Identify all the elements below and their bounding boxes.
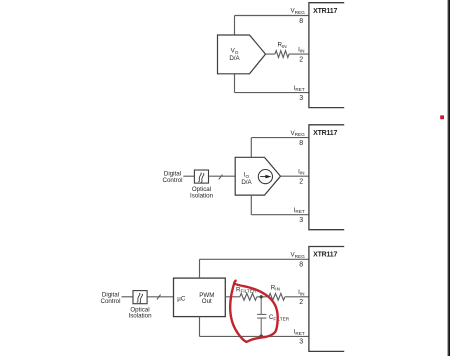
svg-text:VREG: VREG: [291, 252, 306, 259]
XTR117 box U4: [309, 125, 344, 230]
svg-text:Isolation: Isolation: [128, 313, 152, 320]
svg-text:8: 8: [299, 262, 303, 269]
svg-text:2: 2: [299, 179, 303, 186]
svg-text:IIN: IIN: [298, 168, 304, 175]
wire PWM output net: [225, 296, 309, 298]
wire IRET net (DAC bottom to pin 3): [235, 74, 309, 93]
svg-text:Control: Control: [101, 298, 121, 305]
svg-text:IRET: IRET: [294, 207, 305, 214]
svg-text:VREG: VREG: [291, 130, 306, 137]
svg-text:RIN: RIN: [271, 284, 280, 291]
opto-isolator box: [133, 291, 147, 304]
current source circle: [258, 170, 272, 184]
svg-text:Out: Out: [202, 298, 212, 305]
svg-text:Control: Control: [163, 177, 183, 184]
svg-text:8: 8: [299, 140, 303, 147]
svg-text:XTR117: XTR117: [313, 252, 337, 259]
red annotation loop around filter: [230, 281, 278, 342]
svg-text:3: 3: [299, 95, 303, 102]
svg-text:IRET: IRET: [294, 329, 305, 336]
XTR117 box U2: [309, 3, 344, 108]
XTR117 box U6: [309, 247, 344, 352]
svg-text:XTR117: XTR117: [313, 130, 337, 137]
wire IIN net (DAC output to RIN to pin 2): [266, 53, 309, 55]
wire control to opto: [122, 296, 134, 298]
svg-text:VREG: VREG: [291, 8, 306, 15]
svg-text:Isolation: Isolation: [190, 192, 214, 199]
svg-text:3: 3: [299, 339, 303, 346]
node junction dot (filter node): [260, 295, 263, 298]
wire control to opto: [183, 175, 194, 177]
resistor R_FILTER: [240, 293, 257, 300]
wire IRET net stub + bottom wire: [200, 317, 309, 337]
svg-text:RIN: RIN: [278, 42, 287, 49]
node junction dot (IRET): [259, 335, 263, 339]
bus slash: [157, 295, 161, 300]
wire opto to DAC with bus slash: [209, 175, 236, 177]
svg-text:VO: VO: [231, 48, 239, 55]
svg-text:8: 8: [299, 18, 303, 25]
svg-text:IRET: IRET: [294, 85, 305, 92]
wire VREG net stub + top wire: [251, 138, 309, 158]
current arrow: [260, 176, 267, 178]
capacitor C_FILTER vertical leads and plates: [257, 297, 266, 337]
wire VREG net stub + top wire: [200, 259, 309, 278]
DAC U3 pentagon IO D/A: [235, 157, 280, 195]
svg-text:3: 3: [299, 217, 303, 224]
svg-text:IO: IO: [244, 172, 250, 179]
screenshot right edge line: [447, 0, 448, 356]
svg-text:XTR117: XTR117: [313, 8, 337, 15]
opto-isolator box: [194, 170, 208, 183]
svg-text:D/A: D/A: [229, 55, 240, 62]
wire IRET net stub + bottom wire: [251, 195, 309, 215]
wire opto to uC with bus slash: [147, 296, 173, 298]
resistor R_IN: [275, 51, 289, 58]
resistor R_IN: [269, 293, 285, 300]
opto symbol squiggles: [137, 294, 143, 303]
red marker dot (right margin): [440, 115, 444, 119]
bus slash: [219, 175, 223, 180]
svg-text:D/A: D/A: [241, 179, 252, 186]
svg-text:IIN: IIN: [298, 46, 304, 53]
svg-text:2: 2: [299, 56, 303, 63]
opto symbol squiggles: [198, 173, 204, 182]
svg-text:2: 2: [299, 299, 303, 306]
svg-text:IIN: IIN: [298, 289, 304, 296]
svg-text:CFILTER: CFILTER: [269, 314, 290, 321]
wire IIN net: [281, 175, 309, 177]
DAC U1 pentagon VO D/A: [218, 35, 266, 74]
wire VREG net (DAC top supply to pin 8): [235, 16, 309, 36]
svg-text:µC: µC: [177, 295, 186, 302]
microcontroller U5 box: [174, 278, 226, 317]
